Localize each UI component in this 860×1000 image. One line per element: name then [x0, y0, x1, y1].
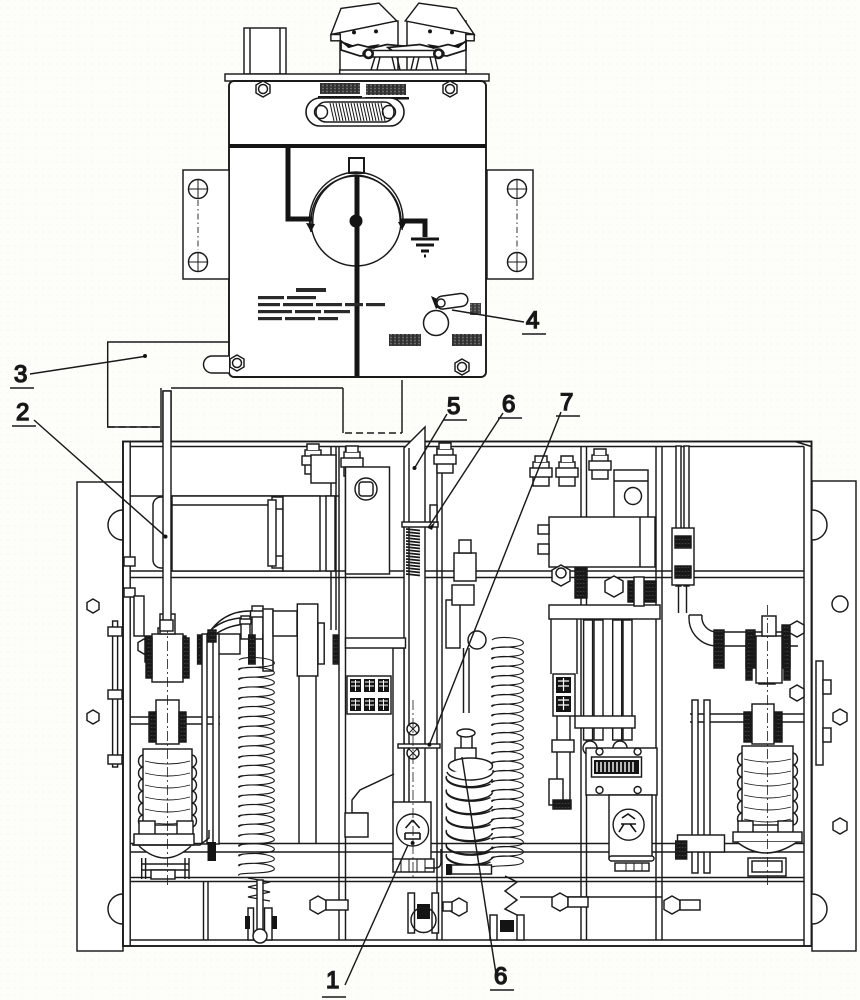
S-curve tube: [199, 611, 252, 652]
mimic right line to ground: [400, 221, 425, 237]
latch pivot dots: [352, 29, 454, 34]
open panel pedestal: [609, 856, 654, 861]
right pole foot: [738, 821, 753, 833]
motor housing: [172, 496, 283, 571]
rail y717 left: [130, 717, 220, 724]
left thin plate: [113, 621, 118, 767]
left flange plate: [77, 482, 123, 951]
mid shaft row left crank: [134, 596, 144, 636]
clamp bolts on panels top: [302, 444, 324, 474]
solenoid block: [454, 553, 476, 581]
latch pivot rod: [363, 51, 444, 58]
open glyph: [619, 814, 636, 832]
latch body left: [340, 21, 398, 71]
svg-text:5: 5: [447, 393, 460, 420]
mimic vertical thick line: [355, 175, 360, 376]
right pole insulator: [742, 746, 793, 825]
vertical panel x437: [437, 447, 442, 941]
svg-text:2: 2: [16, 399, 29, 426]
bottom rail bolt left: [310, 896, 348, 914]
tube fitting: [241, 616, 250, 639]
frame outer box: [123, 442, 812, 947]
horizontal rail y496 left bay: [130, 495, 339, 497]
vertical panel x581: [581, 447, 587, 941]
bolt bottom-left: [230, 355, 244, 371]
mounting bracket left: [183, 170, 229, 279]
open button panel: [609, 795, 652, 859]
barrel connecting rods: [464, 648, 470, 713]
vertical panel x331: [331, 447, 336, 631]
mounting bracket right: [487, 170, 533, 279]
shaft dark rings: [180, 636, 186, 664]
vertical panel x339: [339, 447, 346, 941]
open button circle: [613, 809, 644, 840]
mimic circle: [311, 176, 401, 266]
main control box: [229, 81, 486, 377]
right flange plate: [812, 481, 856, 951]
selector lever (item 4): [424, 293, 482, 336]
Z arm: [352, 774, 394, 813]
bottom rail bolt right: [664, 896, 700, 914]
svg-text:3: 3: [14, 361, 27, 388]
left bracket arm: [132, 830, 209, 845]
center spring clevis: [490, 915, 497, 940]
indicator channel: [549, 619, 577, 809]
bottom bay divider: [204, 881, 209, 940]
svg-text:1: 1: [326, 967, 339, 994]
bar top clamp: [402, 522, 438, 527]
left pole mid block: [156, 700, 179, 744]
panel top labels: [318, 83, 409, 100]
cover step under latches: [340, 70, 466, 75]
L-plate item3: [108, 342, 229, 427]
right link bars: [692, 700, 698, 873]
charge state label: [347, 676, 391, 714]
rail bolt x459: [443, 898, 467, 916]
right pole mid block: [752, 704, 774, 744]
instruction text block: [258, 288, 385, 320]
latch body right: [407, 21, 466, 71]
pedestal under box: [161, 380, 402, 445]
gear panel: [283, 496, 320, 571]
mimic rotation arcs: [309, 172, 403, 232]
bolt bottom-right: [455, 359, 469, 375]
motor bracket tabs: [272, 497, 283, 509]
contact pressure barrel spring: [461, 731, 472, 750]
latch legs: [371, 57, 400, 70]
guide rod right: [676, 446, 681, 586]
wall bolts left: [124, 557, 135, 566]
spring window: [306, 98, 404, 126]
hatched studs right bay: [714, 630, 724, 668]
left pole clevis: [152, 634, 183, 682]
mimic square: [349, 158, 364, 173]
mimic thick L line left: [288, 148, 312, 219]
elbow pipe: [689, 615, 731, 646]
rod foot clamp: [155, 639, 173, 671]
bottom rail bolt center: [552, 893, 588, 911]
latch claw left: [341, 41, 419, 56]
horizontal rail y571: [130, 571, 804, 578]
center shaft row y585-620: [549, 605, 660, 619]
claw dark slivers: [344, 42, 463, 49]
bottom panel labels: [389, 334, 482, 346]
sensor bracket: [614, 470, 648, 519]
svg-text:7: 7: [560, 389, 573, 416]
bar spring item6: [406, 529, 420, 576]
latch roof right: [405, 3, 474, 34]
close button panel: [393, 802, 431, 861]
operation counter: [586, 748, 657, 795]
beam above close panel: [346, 638, 406, 648]
bar left sibling: [393, 648, 404, 808]
top cover plate: [225, 74, 489, 81]
operating bar item5: [404, 427, 425, 862]
ground symbol: [411, 239, 439, 256]
relay box: [549, 517, 655, 567]
manual charging rod item2: [163, 391, 171, 623]
left closing spring: [239, 657, 275, 875]
lug tab on box left: [204, 356, 230, 373]
white box under curve: [218, 634, 240, 654]
beam to anchor: [273, 611, 297, 636]
crank washer block: [346, 467, 390, 574]
svg-text:6: 6: [502, 391, 515, 418]
horizontal rail y843: [130, 844, 804, 853]
clevis right of bar: [446, 600, 460, 648]
latch claw right: [388, 41, 466, 56]
left pole base: [134, 834, 194, 845]
latch ear left: [331, 35, 340, 41]
left pole insulator: [143, 749, 192, 825]
top left stub block: [244, 28, 286, 74]
center opening spring: [492, 637, 524, 868]
right pole clevis: [756, 636, 782, 683]
left pole foot plates: [139, 821, 155, 835]
open-close label: [553, 674, 575, 716]
bolt cluster top right of left bay: [311, 455, 336, 483]
left support channel: [202, 634, 207, 844]
mimic center dot: [350, 215, 363, 228]
svg-text:4: 4: [526, 307, 539, 334]
vertical panel x656: [656, 447, 662, 941]
crank row hex bolt: [138, 639, 150, 654]
trip linkage plates: [584, 620, 593, 740]
horizontal rail y879: [130, 878, 804, 898]
bar lower bolts: [407, 723, 419, 735]
manual rod item2: [161, 391, 173, 632]
close glyph: [405, 820, 420, 845]
latch ear right: [466, 35, 474, 41]
pole centerlines: [168, 605, 768, 885]
close panel pedestal: [393, 859, 434, 872]
close button circle: [397, 814, 429, 846]
spring hanger column: [263, 609, 273, 671]
latch roof left: [331, 3, 397, 34]
divider bar: [229, 144, 486, 148]
motor end cap: [153, 497, 173, 568]
piston column: [252, 606, 263, 639]
bolt top-left: [256, 81, 270, 97]
left spring clevis: [248, 908, 254, 940]
pulley under left spring area: [408, 893, 439, 933]
bolt top-right: [443, 81, 457, 97]
side plate x330: [326, 496, 335, 571]
rail y717 right: [690, 714, 804, 722]
spring anchor block: [297, 604, 318, 676]
